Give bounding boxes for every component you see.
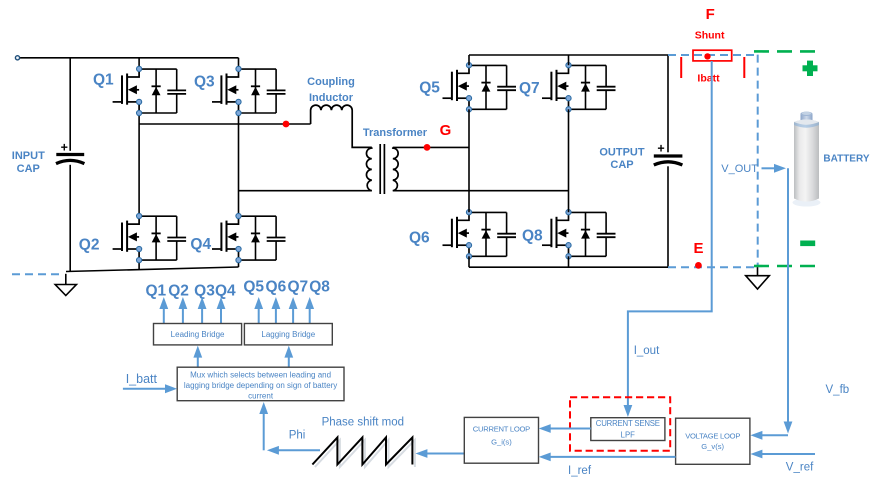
- svg-text:Q8: Q8: [309, 279, 330, 296]
- wire bridge midpoint A to inductor: [139, 123, 311, 125]
- svg-text:Mux which selects between lead: Mux which selects between leading and: [190, 370, 331, 379]
- body diode Q7: [581, 65, 590, 109]
- wire top rail right bridge: [469, 54, 668, 56]
- svg-text:V_fb: V_fb: [826, 384, 850, 396]
- body diode Q6: [481, 212, 490, 256]
- wire snubber loop Q1: [139, 69, 177, 113]
- svg-text:Q2: Q2: [168, 283, 189, 300]
- wire snubber loop Q7: [569, 65, 607, 109]
- blue dashed gnd line bottom-left: [12, 273, 64, 275]
- svg-text:CAP: CAP: [610, 159, 633, 171]
- svg-text:G_i(s): G_i(s): [491, 438, 512, 447]
- transistor Q7: [542, 65, 569, 109]
- wire snubber loop Q5: [469, 65, 507, 109]
- arrow gate drive lagging: [275, 307, 277, 324]
- svg-text:V_OUT: V_OUT: [721, 163, 758, 175]
- svg-text:G_v(s): G_v(s): [701, 442, 724, 451]
- svg-text:G: G: [440, 122, 452, 139]
- block Mux: [177, 367, 344, 401]
- svg-text:I_ref: I_ref: [568, 465, 592, 477]
- node E red dot: [695, 262, 702, 269]
- sawtooth phase shift modulator: [315, 440, 415, 467]
- junction nodes Q4: [236, 213, 241, 262]
- svg-text:Phase shift mod: Phase shift mod: [322, 417, 404, 429]
- capacitor input cap: [56, 141, 84, 164]
- arrow current loop output to modulator: [424, 453, 464, 455]
- wire secondary bottom to leg Q7/Q8: [393, 190, 569, 192]
- svg-text:Transformer: Transformer: [363, 127, 428, 139]
- shunt bracket right: [743, 57, 745, 78]
- green dashed positive bus: [754, 50, 817, 53]
- arrow gate drive lagging: [258, 307, 260, 324]
- arrow mux to leading bridge: [197, 355, 199, 368]
- svg-text:CURRENT LOOP: CURRENT LOOP: [473, 425, 530, 434]
- svg-text:Q8: Q8: [522, 228, 543, 245]
- svg-text:V_ref: V_ref: [786, 461, 814, 473]
- junction nodes Q7: [566, 63, 571, 112]
- wire snubber loop Q3: [239, 69, 277, 113]
- arrow gate drive leading: [220, 307, 222, 324]
- blue dashed bottom rail extension: [668, 266, 754, 268]
- wire snubber loop Q8: [569, 212, 607, 256]
- svg-text:Shunt: Shunt: [695, 29, 725, 41]
- wire leg Q7/Q8 lower: [568, 256, 570, 267]
- arrow phi to mux: [275, 449, 320, 451]
- snubber capacitor Q4: [267, 216, 286, 260]
- block Lagging Bridge: [244, 324, 332, 345]
- wire leg Q1/Q2 middle: [138, 113, 140, 216]
- wire snubber loop Q6: [469, 212, 507, 256]
- transistor Q2: [113, 216, 140, 260]
- block VOLTAGE LOOP G_v(s): [676, 418, 750, 464]
- arrow V_fb down: [784, 422, 793, 434]
- junction nodes Q1: [137, 66, 142, 115]
- svg-text:Q5: Q5: [419, 80, 440, 97]
- wire top rail left bridge: [18, 57, 239, 59]
- block CURRENT LOOP G_i(s): [464, 417, 538, 463]
- wire bottom rail right bridge: [469, 266, 668, 268]
- svg-text:Q4: Q4: [190, 236, 211, 253]
- wire leg Q3/Q4 lower: [238, 260, 240, 267]
- wire secondary top to leg Q5/Q6 (node G): [393, 146, 469, 148]
- svg-text:F: F: [706, 6, 715, 23]
- node A red dot: [283, 121, 290, 128]
- wire V_fb horizontal into voltage loop: [760, 434, 788, 436]
- shunt bracket left: [680, 57, 682, 78]
- transistor Q1: [113, 69, 140, 113]
- junction nodes Q2: [137, 213, 142, 262]
- transistor Q8: [542, 212, 569, 256]
- svg-text:lagging bridge depending on si: lagging bridge depending on sign of batt…: [184, 381, 337, 390]
- transformer T1 primary winding: [366, 147, 371, 190]
- minus terminal symbol: [800, 241, 815, 247]
- shunt resistor red box: [693, 50, 732, 61]
- arrow LPF to current loop: [543, 428, 591, 430]
- wire leg Q5/Q6 upper: [468, 55, 470, 65]
- svg-text:Q3: Q3: [194, 74, 215, 91]
- wire primary bottom to leg Q3/Q4: [239, 190, 372, 192]
- arrow I_batt into mux: [123, 388, 168, 390]
- wire V_fb feedback vertical: [787, 168, 789, 424]
- blue dashed rail through shunt: [668, 54, 758, 56]
- svg-text:Phi: Phi: [289, 430, 306, 442]
- snubber capacitor Q6: [497, 212, 516, 256]
- block Leading Bridge: [154, 324, 242, 345]
- svg-text:+: +: [61, 141, 68, 155]
- svg-text:OUTPUT: OUTPUT: [599, 147, 645, 159]
- wire I_out sense from shunt to LPF: [628, 61, 712, 408]
- svg-text:I_out: I_out: [634, 345, 660, 357]
- wire output cap leg top: [667, 55, 669, 152]
- svg-text:CURRENT SENSE: CURRENT SENSE: [596, 419, 660, 428]
- transformer T1 secondary winding: [393, 147, 398, 190]
- arrow gate drive leading: [201, 307, 203, 324]
- svg-text:Q4: Q4: [215, 283, 236, 300]
- wire leg Q3/Q4 middle: [238, 113, 240, 216]
- transistor Q5: [443, 65, 470, 109]
- junction nodes Q6: [466, 210, 471, 259]
- ground right: [746, 267, 770, 289]
- body diode Q1: [152, 69, 161, 113]
- svg-text:E: E: [693, 240, 703, 257]
- wire leg Q1/Q2 lower: [138, 260, 140, 270]
- svg-text:CAP: CAP: [17, 163, 40, 175]
- blue dashed battery bus vertical: [757, 55, 759, 266]
- junction nodes Q3: [236, 66, 241, 115]
- arrow gate drive leading: [163, 307, 165, 324]
- svg-text:current: current: [248, 392, 274, 401]
- transistor Q6: [443, 212, 470, 256]
- svg-text:BATTERY: BATTERY: [823, 153, 869, 164]
- svg-text:Q7: Q7: [287, 279, 308, 296]
- ground left: [55, 274, 76, 296]
- wire snubber loop Q2: [139, 216, 177, 260]
- svg-text:LPF: LPF: [621, 431, 636, 440]
- wire input cap leg top: [69, 58, 71, 151]
- body diode Q5: [481, 65, 490, 109]
- svg-text:Q3: Q3: [194, 283, 215, 300]
- svg-text:Leading Bridge: Leading Bridge: [171, 330, 225, 339]
- svg-text:Lagging Bridge: Lagging Bridge: [261, 330, 315, 339]
- block CURRENT SENSE LPF: [591, 418, 665, 441]
- wire snubber loop Q4: [239, 216, 277, 260]
- wire leg Q5/Q6 lower: [468, 256, 470, 267]
- svg-text:Q5: Q5: [243, 279, 264, 296]
- arrow gate drive leading: [182, 307, 184, 324]
- wire leg Q5/Q6 middle: [468, 109, 470, 212]
- wire leg Q7/Q8 upper: [568, 55, 570, 65]
- arrow gate drive lagging: [309, 307, 311, 324]
- wire leg Q1/Q2 upper: [138, 58, 140, 69]
- plus terminal symbol: [803, 61, 818, 76]
- svg-text:Q7: Q7: [519, 80, 540, 97]
- transistor Q3: [212, 69, 239, 113]
- snubber capacitor Q3: [267, 69, 286, 113]
- body diode Q8: [581, 212, 590, 256]
- capacitor output cap: [654, 142, 683, 165]
- svg-text:Q1: Q1: [145, 283, 166, 300]
- svg-text:Coupling: Coupling: [307, 76, 355, 88]
- svg-text:Q1: Q1: [93, 72, 114, 89]
- red dashed current sense boundary: [570, 397, 670, 450]
- node shunt red dot: [704, 53, 710, 59]
- inductor L1 coupling inductor: [311, 105, 372, 147]
- body diode Q3: [251, 69, 260, 113]
- svg-text:Q2: Q2: [79, 237, 100, 254]
- body diode Q2: [152, 216, 161, 260]
- svg-text:+: +: [657, 142, 664, 156]
- svg-text:I_batt: I_batt: [126, 372, 158, 386]
- wire I_ref voltage loop to current loop: [543, 456, 676, 458]
- snubber capacitor Q2: [167, 216, 186, 260]
- arrow mux to lagging bridge: [288, 355, 290, 368]
- node G red dot: [424, 144, 431, 151]
- snubber capacitor Q7: [597, 65, 616, 109]
- snubber capacitor Q8: [597, 212, 616, 256]
- snubber capacitor Q1: [167, 69, 186, 113]
- wire leg Q3/Q4 upper: [238, 58, 240, 69]
- svg-text:Inductor: Inductor: [309, 92, 354, 104]
- svg-text:INPUT: INPUT: [12, 150, 45, 162]
- arrow V_ref into voltage loop: [754, 453, 815, 455]
- wire bottom rail left bridge: [66, 267, 239, 272]
- node input terminal: [15, 56, 19, 60]
- arrow V_OUT to battery bus: [762, 167, 777, 169]
- snubber capacitor Q5: [497, 65, 516, 109]
- wire leg Q7/Q8 middle: [568, 109, 570, 212]
- transistor Q4: [212, 216, 239, 260]
- wire input cap leg bottom: [69, 165, 71, 271]
- junction nodes Q5: [466, 63, 471, 112]
- svg-text:Q6: Q6: [266, 279, 287, 296]
- body diode Q4: [251, 216, 260, 260]
- svg-text:VOLTAGE LOOP: VOLTAGE LOOP: [685, 432, 740, 441]
- green dashed negative bus: [754, 265, 820, 268]
- transformer T1 core: [379, 144, 381, 194]
- svg-text:Q6: Q6: [409, 230, 430, 247]
- svg-text:Ibatt: Ibatt: [697, 72, 720, 84]
- wire output cap leg bottom: [667, 166, 669, 267]
- junction nodes Q8: [566, 210, 571, 259]
- arrow gate drive lagging: [292, 307, 294, 324]
